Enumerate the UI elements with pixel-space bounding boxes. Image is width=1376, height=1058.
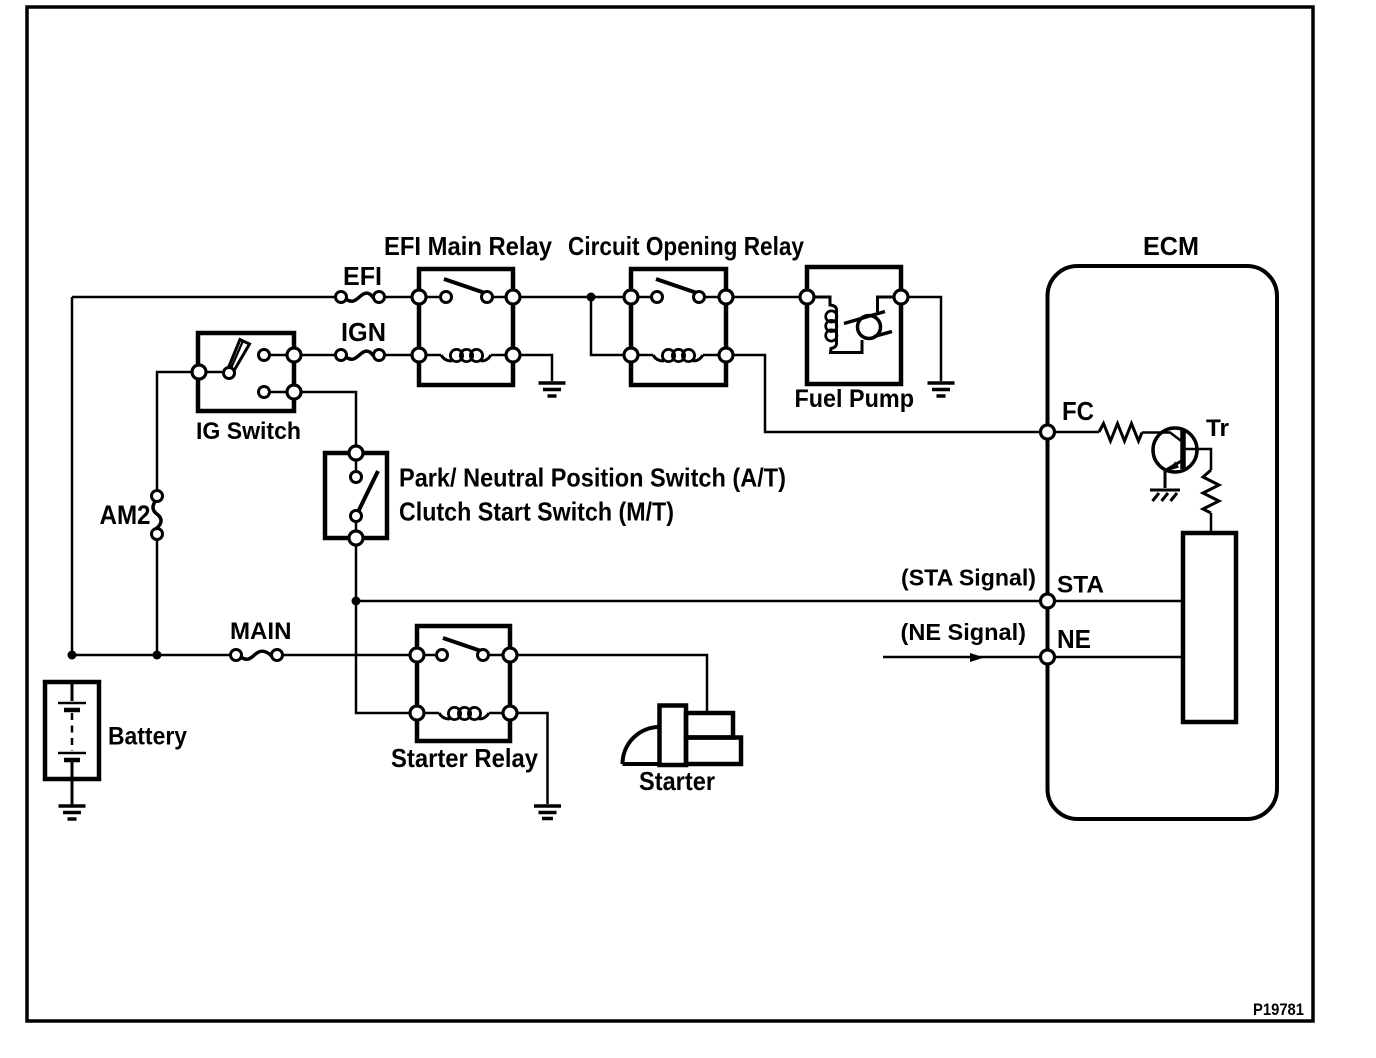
wire: STA signal line to ECM STA pin xyxy=(356,600,1041,603)
svg-text:(NE Signal): (NE Signal) xyxy=(901,619,1027,645)
switch IG Switch xyxy=(192,333,301,411)
wire: Starter Relay contact to Starter motor xyxy=(517,655,707,713)
wire: battery bus to MAIN fuse xyxy=(72,654,231,657)
wire: resistor to transistor base xyxy=(1142,433,1182,442)
svg-text:EFI: EFI xyxy=(343,261,382,291)
wire: EFI fuse to EFI Main Relay contact terminal xyxy=(385,296,413,299)
node junction AM2 branch xyxy=(153,651,162,660)
wire: junction drop to Circuit Opening Relay coil terminal xyxy=(591,297,624,355)
svg-text:IG Switch: IG Switch xyxy=(196,418,301,445)
wire: IG switch IG terminal to IGN fuse xyxy=(294,354,336,357)
svg-text:STA: STA xyxy=(1057,572,1104,599)
svg-text:Clutch Start Switch (M/T): Clutch Start Switch (M/T) xyxy=(399,497,674,527)
wire: EFI Main Relay coil terminal to ground xyxy=(520,355,552,381)
wire: Park/Neutral switch down to Starter Relay coil terminal xyxy=(356,545,410,713)
ground below battery xyxy=(59,806,86,819)
wire: FC pin to resistor xyxy=(1054,431,1099,434)
relay EFI Main Relay xyxy=(412,269,520,385)
svg-text:ECM: ECM xyxy=(1143,231,1199,261)
wire: NE pin to internal block xyxy=(1048,656,1184,659)
svg-text:Circuit Opening Relay: Circuit Opening Relay xyxy=(568,231,804,261)
wire: AM2 fuse down to battery bus xyxy=(156,540,159,656)
wire: Circuit Opening Relay contact to Fuel Pump terminal xyxy=(733,296,800,299)
ground below Starter Relay xyxy=(534,806,561,819)
wire: resistor to internal block xyxy=(1210,513,1213,533)
svg-text:Starter: Starter xyxy=(639,766,715,796)
fuse AM2 xyxy=(152,491,163,540)
wire: Starter Relay coil terminal to ground xyxy=(517,713,548,804)
fuse IGN xyxy=(336,350,385,361)
wire: EFI bus horizontal from left riser to EFI fuse xyxy=(72,296,336,299)
svg-text:NE: NE xyxy=(1057,624,1091,654)
resistor at transistor collector xyxy=(1203,470,1219,513)
switch Park/Neutral Position Switch / Clutch Start Switch xyxy=(325,446,387,545)
fuse MAIN xyxy=(231,650,283,661)
relay Circuit Opening Relay xyxy=(624,269,733,385)
wire: MAIN fuse to Starter Relay contact terminal xyxy=(283,654,411,657)
relay Starter Relay xyxy=(410,626,517,741)
motor Fuel Pump xyxy=(800,267,908,384)
wire: IG switch battery terminal left and down to AM2 fuse xyxy=(157,372,192,490)
node ECM pin STA xyxy=(1041,594,1055,608)
motor Starter xyxy=(623,706,742,766)
node ECM pin FC xyxy=(1041,425,1055,439)
node junction on EFI bus xyxy=(587,293,596,302)
svg-text:AM2: AM2 xyxy=(100,500,151,530)
svg-text:FC: FC xyxy=(1062,396,1094,426)
wire: Circuit Opening Relay coil terminal to ECM FC pin xyxy=(733,355,1041,432)
svg-text:Tr: Tr xyxy=(1206,415,1229,442)
ground below EFI Main Relay xyxy=(539,383,566,396)
wire: IG switch ST terminal to Park/Neutral switch xyxy=(301,392,356,446)
wire: IGN fuse to EFI Main Relay coil terminal xyxy=(385,354,413,357)
svg-text:Starter Relay: Starter Relay xyxy=(391,743,538,773)
node ECM pin NE xyxy=(1041,650,1055,664)
block internal circuit of ECM xyxy=(1183,533,1236,722)
svg-text:Park/ Neutral Position Switch: Park/ Neutral Position Switch (A/T) xyxy=(399,463,786,493)
svg-text:Fuel Pump: Fuel Pump xyxy=(795,385,915,413)
ground below Fuel Pump xyxy=(928,383,955,396)
node junction STA branch xyxy=(352,597,361,606)
wire: EFI Main Relay contact to Circuit Opening Relay contact xyxy=(520,296,624,299)
resistor at FC input xyxy=(1099,424,1142,442)
ECM box xyxy=(1048,266,1278,819)
transistor Tr xyxy=(1153,428,1211,488)
node junction at battery positive xyxy=(68,651,77,660)
ground at transistor emitter xyxy=(1150,490,1180,501)
svg-text:EFI Main Relay: EFI Main Relay xyxy=(384,231,552,261)
battery xyxy=(45,682,99,805)
wire: NE signal line with arrow xyxy=(883,656,1041,659)
wire: Fuel Pump terminal to ground xyxy=(908,297,941,381)
fuse EFI xyxy=(336,292,385,303)
svg-text:(STA Signal): (STA Signal) xyxy=(901,565,1036,591)
svg-text:Battery: Battery xyxy=(108,723,187,751)
wire: STA pin to internal block xyxy=(1048,600,1184,603)
svg-text:MAIN: MAIN xyxy=(230,618,292,645)
svg-text:IGN: IGN xyxy=(341,317,386,347)
svg-text:P19781: P19781 xyxy=(1253,1000,1304,1019)
wire: left riser from EFI bus down to battery bus xyxy=(71,297,74,655)
